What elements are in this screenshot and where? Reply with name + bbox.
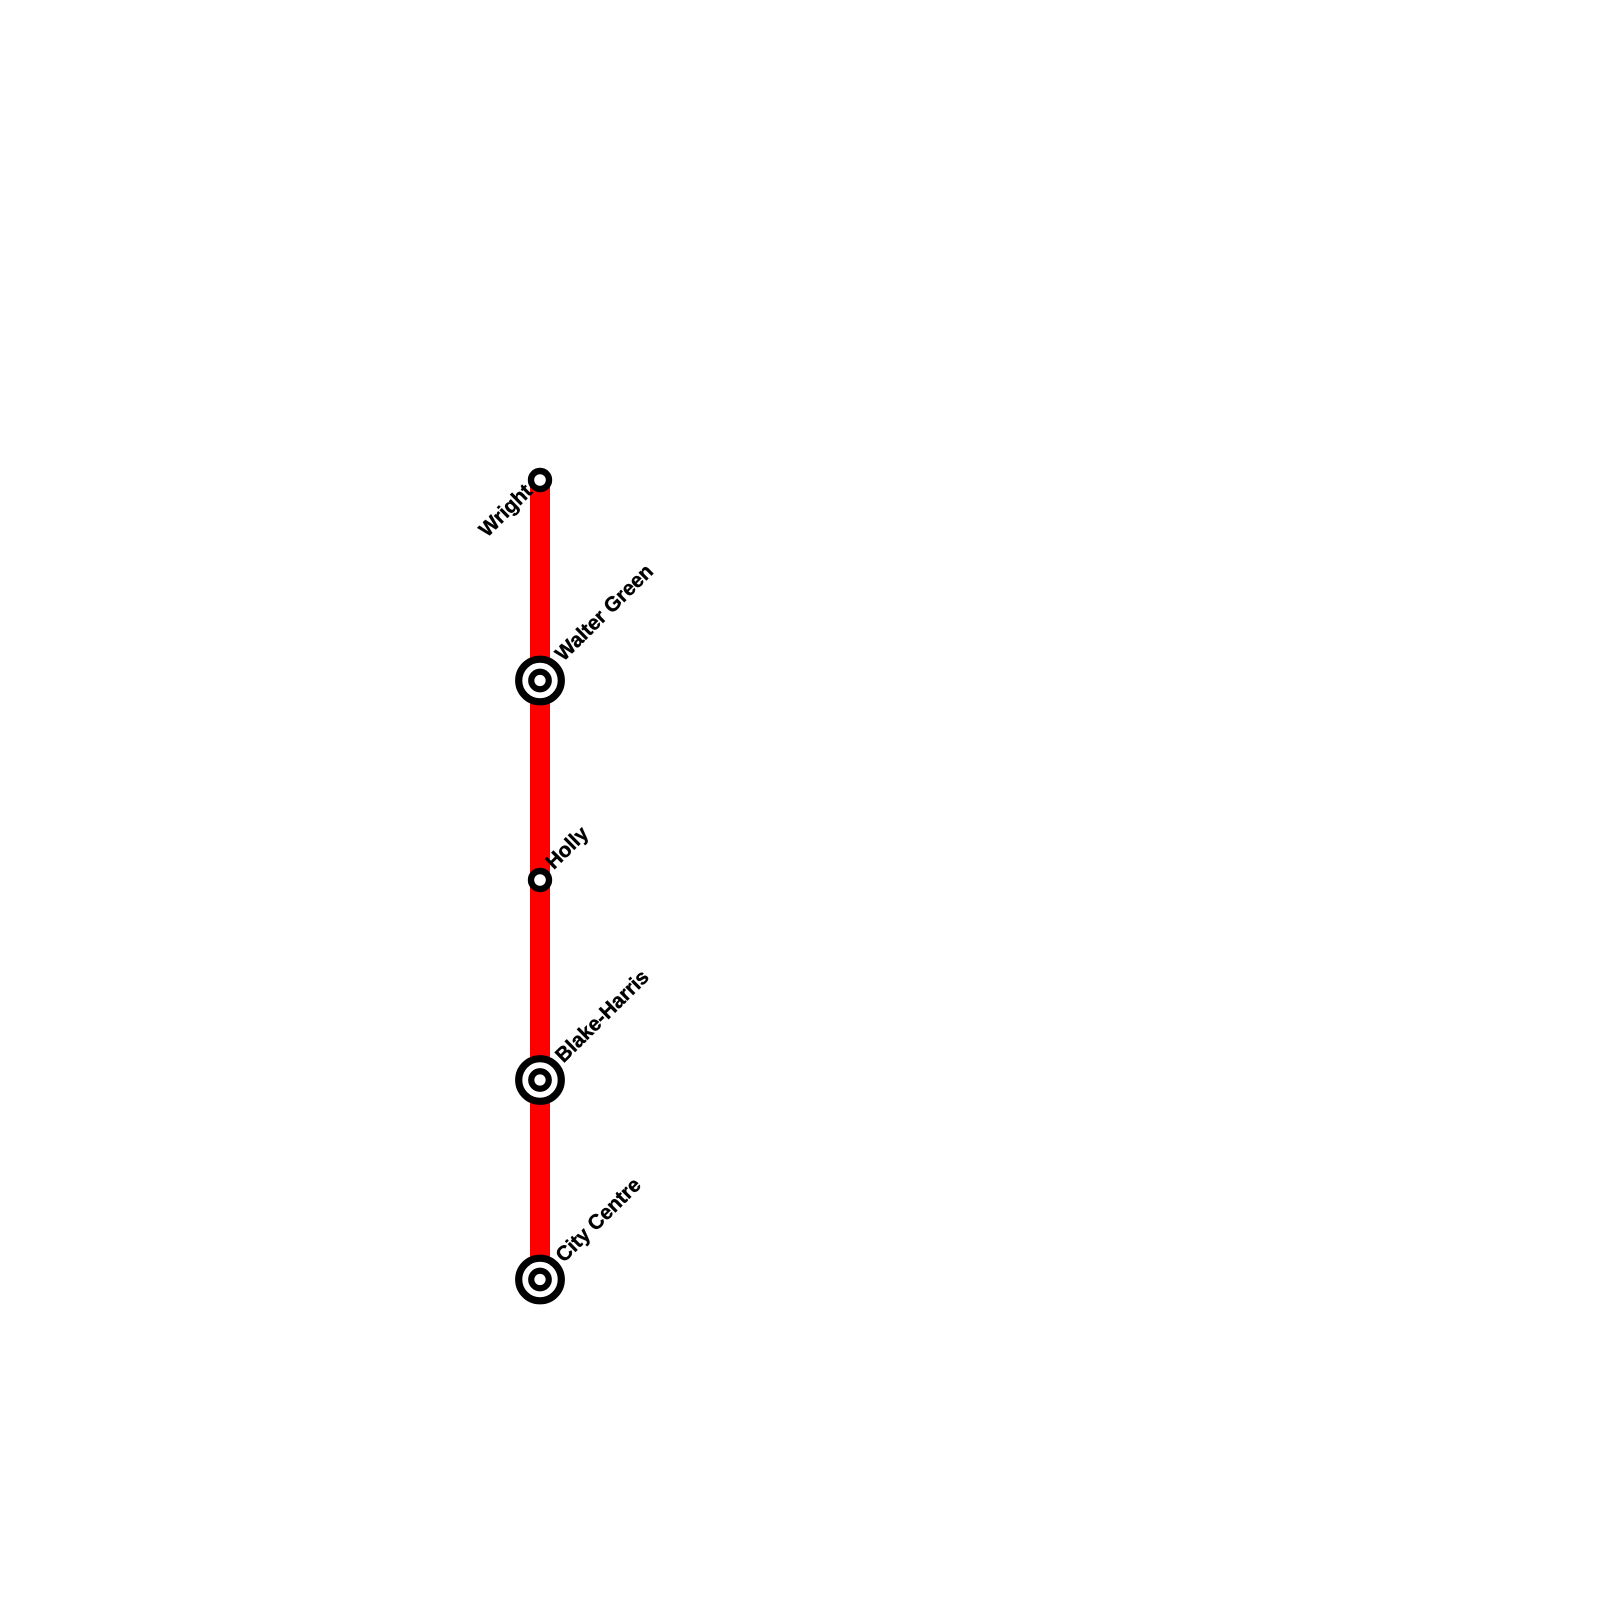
svg-text:City Centre: City Centre [551,1173,645,1266]
node Blake-Harris (interchange) [519,1059,562,1102]
wire: red metro line [530,480,550,1280]
node Holly [531,871,549,889]
svg-text:Blake-Harris: Blake-Harris [551,966,654,1067]
node Walter Green (interchange) [519,659,562,702]
svg-text:Walter Green: Walter Green [551,560,658,666]
node Wright (terminus station) [531,471,549,489]
node City Centre (interchange) [519,1258,562,1301]
svg-text:Wright: Wright [474,480,536,542]
